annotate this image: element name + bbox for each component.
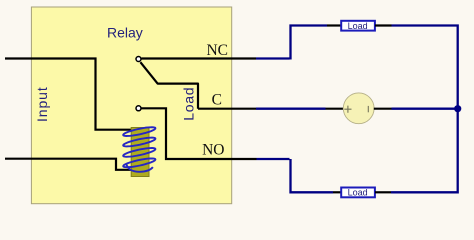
svg-text:NO: NO [202,142,224,159]
svg-text:NC: NC [206,42,228,59]
wire bottom run to right edge [391,190,458,193]
contact NO circle [136,106,141,111]
junction dot [454,105,461,112]
svg-text:Load: Load [181,87,197,121]
wire source left stub [326,108,345,110]
wire NC from contact [142,57,257,59]
wire input1 horizontal [5,59,131,130]
wire NO drop and bottom run [291,159,334,192]
svg-text:Relay: Relay [107,25,143,41]
wire NO from contact [142,108,257,159]
plus sign [344,106,351,113]
wire bottom load left black stub [333,191,341,193]
wire NC navy segment [256,57,290,59]
wire NC riser and top run [291,26,328,60]
load box top [341,21,375,31]
wire top load right black stub [375,24,392,26]
wire C navy to source [256,108,326,110]
wire bottom load right black stub [375,191,391,193]
wire C black inside box [198,108,256,110]
svg-text:Input: Input [34,86,50,122]
wire source right stub [374,108,392,110]
switch arm diagonal [140,62,198,108]
coil body [131,128,149,177]
wire top load left black stub [327,24,341,26]
relay box [31,7,231,204]
svg-text:Load: Load [348,21,368,31]
minus sign (vertical) [367,106,369,112]
load box bottom [341,188,375,198]
coil winding [123,127,155,172]
wire input2 horizontal with step [5,159,131,170]
wire NO navy segment [257,158,290,160]
svg-text:Load: Load [348,188,368,198]
svg-text:C: C [212,92,222,109]
voltage source V1 [343,93,374,124]
wire top run to right edge [392,26,458,109]
contact NC circle [136,57,141,62]
wire right vertical lower half [457,109,459,192]
wire C navy to junction [392,108,457,110]
